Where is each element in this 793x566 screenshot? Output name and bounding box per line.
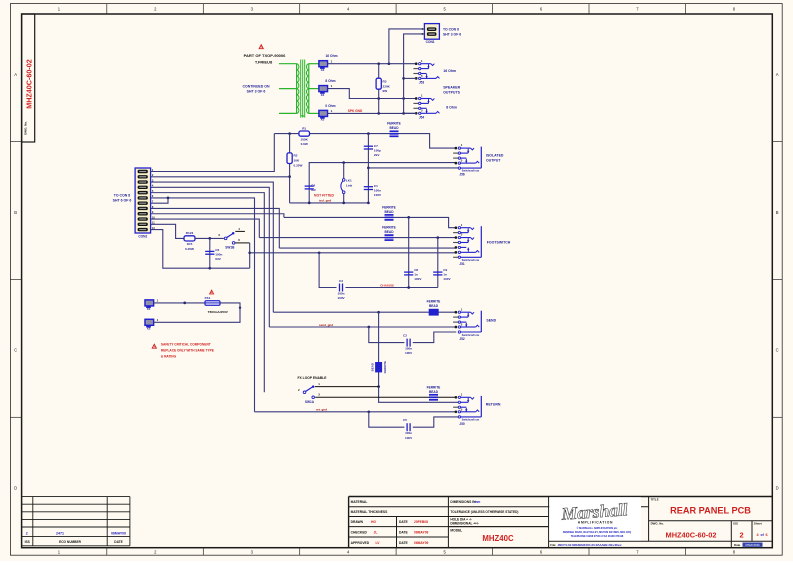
junction fuse right: [239, 307, 241, 309]
svg-text:SHT 3 OF 6: SHT 3 OF 6: [443, 32, 461, 36]
svg-text:SHT 3 OF 6: SHT 3 OF 6: [247, 89, 266, 93]
jack J51 footswitch: [453, 223, 481, 266]
svg-text:8 Ohm: 8 Ohm: [446, 106, 457, 110]
resistor R123: [184, 231, 224, 251]
svg-text:C: C: [14, 348, 17, 353]
svg-text:X3: X3: [321, 68, 325, 72]
svg-text:ISS: ISS: [733, 522, 738, 526]
title cell: [651, 497, 752, 515]
junction bottom rail at C4: [308, 202, 311, 205]
capacitor C8: [404, 217, 422, 287]
svg-text:6: 6: [766, 533, 768, 537]
svg-text:LK1: LK1: [346, 179, 352, 183]
svg-text:BEAD: BEAD: [371, 363, 375, 371]
capacitor C2 series to bushing: [369, 327, 456, 355]
svg-text:SW1A: SW1A: [305, 400, 315, 404]
wire SW1B pin6 down to ground: [249, 243, 251, 268]
wire CON2 pin12 to ground rail: [151, 230, 210, 269]
svg-text:06MAY09: 06MAY09: [111, 531, 126, 535]
svg-text:C2: C2: [403, 334, 407, 338]
svg-text:Sheet: Sheet: [754, 522, 762, 526]
svg-text:J51: J51: [459, 262, 465, 266]
svg-text:63V: 63V: [215, 257, 221, 261]
capacitor C9: [433, 238, 451, 288]
svg-text:X1: X1: [147, 307, 151, 311]
zone numbers top margin: [58, 7, 736, 12]
svg-text:100V: 100V: [405, 351, 413, 355]
wire CON2 pin10 to ferrite FB3: [151, 219, 260, 238]
svg-text:0.25W: 0.25W: [294, 164, 303, 168]
svg-text:2471: 2471: [56, 531, 64, 535]
svg-text:SEND: SEND: [486, 319, 496, 323]
svg-text:TO CON 6: TO CON 6: [443, 27, 459, 31]
svg-text:File:: File:: [550, 543, 556, 547]
svg-text:0 Ohm: 0 Ohm: [325, 104, 335, 108]
junction chassis rail at C8: [407, 286, 410, 289]
svg-text:TO CON 8: TO CON 8: [114, 194, 131, 198]
svg-text:OUTPUTS: OUTPUTS: [443, 91, 460, 95]
warning triangle above transformer: [259, 45, 263, 49]
svg-text:C: C: [776, 348, 779, 353]
svg-text:FERRITE: FERRITE: [387, 122, 401, 126]
svg-text:16 Ohm: 16 Ohm: [325, 54, 337, 58]
svg-text:DWG. No.: DWG. No.: [651, 522, 665, 526]
svg-text:BEAD: BEAD: [384, 210, 394, 214]
svg-text:CON2: CON2: [138, 235, 147, 239]
ferrite bead FB2: [382, 205, 396, 220]
svg-text:100n: 100n: [405, 347, 412, 351]
svg-text:100V: 100V: [374, 193, 382, 197]
terminal X1: [145, 299, 159, 312]
svg-text:MATERIAL THICKNESS: MATERIAL THICKNESS: [351, 510, 388, 514]
terminal X4 8 ohm tap: [319, 79, 336, 97]
svg-text:CHECKED: CHECKED: [351, 531, 368, 535]
zone letters right margin: [776, 72, 779, 491]
junction ret gnd at C5 branch: [367, 410, 370, 413]
junction CON1 pin2 at J53 sleeve: [402, 77, 405, 80]
svg-text:DWG. No.: DWG. No.: [24, 121, 28, 135]
svg-text:DRAWN: DRAWN: [351, 520, 364, 524]
svg-text:C7: C7: [374, 144, 378, 148]
wire top net drop to isolated jack tip: [425, 134, 456, 149]
capacitor C4 not fitted: [305, 183, 335, 202]
junction C7/C1 midpoint to bushing wire: [367, 167, 370, 170]
capacitor C6: [205, 238, 222, 268]
svg-text:MHZ40C: MHZ40C: [482, 534, 514, 543]
wire SPK GND net: [328, 109, 417, 113]
svg-text:10K: 10K: [294, 159, 300, 163]
wire SW1B pin6 to footswitch row6: [250, 252, 457, 254]
svg-text:FERRITE: FERRITE: [382, 205, 396, 209]
wire FB6 net to return row2: [379, 387, 459, 403]
zone numbers bottom margin: [58, 549, 736, 554]
svg-text:20FEB08: 20FEB08: [414, 520, 428, 524]
isolated output label: [486, 154, 504, 163]
wire isolated bushing net: [368, 167, 458, 169]
jack J54 8 ohm speaker output: [404, 94, 440, 120]
svg-text:PART OF TXOP-90006: PART OF TXOP-90006: [244, 53, 286, 58]
wire ground rail end: [210, 267, 250, 269]
svg-text:FOOTSWITCH: FOOTSWITCH: [487, 241, 511, 245]
junction R2 vertical at CON2 pin2 wire: [288, 175, 291, 178]
svg-text:X2: X2: [147, 327, 151, 331]
junction pin6/pin7: [167, 197, 170, 200]
ferrite bead FB3: [382, 226, 396, 241]
svg-text:100p: 100p: [374, 149, 381, 153]
date strip: [734, 543, 763, 548]
wire CON2 pin6 to ret gnd: [151, 198, 255, 412]
connector CON2: [135, 168, 155, 239]
svg-text:100V: 100V: [443, 277, 451, 281]
wire CON2 pin7 join pin6: [151, 198, 168, 203]
svg-text:send_gnd: send_gnd: [319, 323, 333, 327]
svg-text:DIMENSIONAL ++/-: DIMENSIONAL ++/-: [450, 522, 478, 526]
junction tip net at C8: [407, 216, 410, 219]
svg-text:MHZ40C-60-02: MHZ40C-60-02: [666, 530, 717, 539]
svg-text:C5: C5: [403, 418, 407, 422]
svg-text:SHT 6 OF 6: SHT 6 OF 6: [113, 199, 132, 203]
svg-text:1K5: 1K5: [187, 242, 193, 246]
svg-text:100n: 100n: [374, 189, 381, 193]
svg-text:HOLE DIA + -/-: HOLE DIA + -/-: [450, 517, 471, 521]
svg-text:9W: 9W: [383, 89, 388, 93]
wire CON2 pin5 to SW1A: [151, 193, 265, 393]
svg-text:MODEL: MODEL: [450, 529, 462, 533]
svg-text:R123: R123: [186, 231, 194, 235]
svg-text:REPLACE ONLY WITH SAME TYPE: REPLACE ONLY WITH SAME TYPE: [161, 349, 214, 353]
DWG number vertical box: [22, 14, 35, 142]
wire isolated top net: [274, 133, 425, 135]
svg-text:HG: HG: [371, 520, 376, 524]
svg-text:Date: Date: [734, 543, 741, 547]
capacitor C5 series to bushing: [369, 412, 458, 440]
svg-text:FERRITE: FERRITE: [427, 385, 441, 389]
junction send tip at FB6 vertical: [377, 311, 380, 314]
svg-text:T1: T1: [301, 114, 305, 118]
wire footswitch ring net FB3: [259, 237, 456, 239]
svg-text:B: B: [14, 210, 17, 215]
wire footswitch tip net FB2: [284, 217, 456, 227]
title block grid: [349, 497, 773, 548]
wire CON2 pin3 to send tip: [151, 182, 274, 312]
junction send gnd at C2 branch: [367, 326, 370, 329]
svg-text:REAR PANEL PCB: REAR PANEL PCB: [670, 506, 751, 516]
zone letters left margin: [14, 72, 17, 491]
wire CON2 pin11 to R123: [151, 224, 184, 238]
svg-text:X4: X4: [321, 93, 325, 97]
svg-text:MATERIAL: MATERIAL: [351, 500, 368, 504]
Marshall logo block: [549, 497, 641, 540]
svg-text:TELEPHONE 01908 375411 FAX 019: TELEPHONE 01908 375411 FAX 01908 376118: [571, 535, 624, 538]
svg-text:isol_gnd: isol_gnd: [319, 198, 332, 202]
wire send gnd net: [269, 323, 456, 327]
svg-text:MHZ40C-60-02: MHZ40C-60-02: [25, 59, 34, 109]
file strip: [550, 543, 622, 547]
svg-text:100V: 100V: [337, 296, 345, 300]
text to CON6: [443, 27, 461, 36]
svg-text:OUTPUT: OUTPUT: [486, 159, 501, 163]
svg-text:ret_gnd: ret_gnd: [316, 408, 327, 412]
junction 16 ohm at R3: [377, 62, 380, 65]
junction 8 ohm at R3: [377, 97, 380, 100]
wire CON2 pin4 to send gnd: [151, 187, 270, 327]
wire CON1 pin2 vertical: [404, 34, 425, 114]
wire CON2 pin8 to footswitch: [151, 208, 280, 248]
svg-text:DATE: DATE: [399, 531, 409, 535]
svg-text:RETURN: RETURN: [486, 402, 501, 406]
ferrite bead FB1: [387, 122, 401, 137]
safety warning triangle: [152, 344, 156, 348]
connector CON1: [422, 24, 440, 44]
wire fuse to X2: [154, 303, 240, 322]
terminal X3 16 ohm tap: [319, 54, 338, 72]
svg-text:BEAD: BEAD: [389, 126, 399, 130]
junction R123 at C6: [208, 237, 211, 240]
svg-text:R2: R2: [294, 154, 298, 158]
junction 16 ohm at CON1 pin1 drop: [388, 62, 391, 65]
ECO revision table: [22, 497, 130, 546]
link LK1: [341, 163, 353, 203]
svg-text:ISS: ISS: [25, 540, 30, 544]
svg-text:C6: C6: [215, 248, 219, 252]
junction SPK GND at CON1 pin2 drop: [402, 112, 405, 115]
svg-text:100V: 100V: [414, 277, 422, 281]
svg-text:A: A: [14, 72, 17, 77]
resistor R1: [299, 127, 310, 146]
svg-text:DIMENSIONS IN: DIMENSIONS IN: [450, 500, 476, 504]
svg-text:DATE: DATE: [114, 540, 122, 544]
wire SW1A pin3 to return tip: [315, 396, 456, 398]
svg-text:CHASSIS: CHASSIS: [380, 283, 394, 287]
capacitor C3 series: [337, 279, 345, 300]
svg-text:CON1: CON1: [426, 40, 435, 44]
svg-text:SW1B: SW1B: [225, 245, 235, 249]
svg-text:BEAD: BEAD: [384, 230, 394, 234]
junction SW1B pin6 branch: [248, 251, 251, 254]
svg-text:T800mA/250V: T800mA/250V: [208, 310, 229, 314]
svg-text:FERRITE: FERRITE: [383, 361, 387, 373]
switch SW1A: [298, 382, 379, 404]
transformer T1: [279, 60, 319, 119]
svg-text:C1: C1: [374, 184, 378, 188]
svg-text:R1: R1: [302, 127, 306, 131]
svg-text:D: D: [14, 486, 17, 491]
junction X1 wire: [183, 302, 186, 305]
title block dimensions column texts: [450, 500, 518, 543]
svg-text:© MARSHALL AMPLIFICATION plc: © MARSHALL AMPLIFICATION plc: [577, 527, 618, 530]
svg-text:8 Ohm: 8 Ohm: [325, 79, 335, 83]
resistor R3: [376, 64, 391, 114]
svg-text:& RATING: & RATING: [161, 355, 177, 359]
ferrite bead FB6 vertical: [371, 312, 387, 386]
wire CON2 pin1 to R1: [151, 134, 275, 172]
svg-text:T.FRIEU8: T.FRIEU8: [255, 59, 273, 64]
wire 8 ohm net: [328, 89, 417, 99]
svg-text:06MAY09: 06MAY09: [414, 531, 429, 535]
svg-text:100n: 100n: [215, 253, 222, 257]
svg-text:100n: 100n: [405, 431, 412, 435]
svg-text:FS1: FS1: [205, 296, 211, 300]
warning triangle at FS1: [210, 290, 214, 294]
svg-text:C8: C8: [414, 268, 418, 272]
svg-text:Link: Link: [346, 183, 353, 187]
svg-text:2kV: 2kV: [374, 153, 380, 157]
terminal X2: [145, 318, 159, 331]
wire CON1 pin1 to 16 ohm: [389, 29, 425, 64]
capacitor C1: [364, 184, 382, 197]
junction FB6 net at SW1A pin1: [377, 385, 380, 388]
svg-text:06MAY09: 06MAY09: [414, 541, 429, 545]
svg-text:J50: J50: [459, 422, 465, 426]
continued on text: [242, 85, 270, 94]
junction bottom rail at LK1: [342, 202, 345, 205]
svg-text:DENBIGH ROAD, BLETCHLEY, MILTO: DENBIGH ROAD, BLETCHLEY, MILTON KEYNES, …: [563, 531, 631, 534]
svg-text:TITLE: TITLE: [651, 497, 659, 501]
svg-text:X5: X5: [321, 118, 325, 122]
svg-text:SPEAKER: SPEAKER: [443, 86, 460, 90]
svg-text:FX LOOP ENABLE: FX LOOP ENABLE: [298, 376, 328, 380]
svg-text:C9: C9: [443, 268, 447, 272]
svg-text:2: 2: [26, 531, 28, 535]
svg-text:0.6W: 0.6W: [301, 142, 308, 146]
terminal X5 0 ohm tap: [319, 104, 336, 122]
ferrite bead FB5: [427, 385, 441, 400]
jack J50 return: [453, 392, 481, 426]
safety critical text: [161, 343, 214, 359]
wire isolated ring net: [309, 163, 456, 203]
wire chassis rail: [319, 253, 438, 288]
svg-text:JMC\TLCE MRH\MHZ40C-60-02\AABB: JMC\TLCE MRH\MHZ40C-60-02\AABB 2\Es4Dsw: [558, 543, 623, 547]
svg-text:J54: J54: [419, 115, 425, 119]
wire CON2 pin2 to R2 top: [151, 176, 290, 178]
svg-text:APPROVED: APPROVED: [351, 541, 370, 545]
svg-text:07MAY2009: 07MAY2009: [745, 543, 760, 547]
svg-text:CONTINUED ON: CONTINUED ON: [242, 85, 270, 89]
svg-text:J56: J56: [459, 173, 465, 177]
resistor R2: [287, 134, 303, 203]
svg-text:1n: 1n: [414, 273, 418, 277]
svg-text:AMPLIFICATION: AMPLIFICATION: [578, 521, 613, 525]
junction ground rail at C6: [208, 267, 211, 270]
wire 16 ohm net: [328, 63, 417, 65]
svg-text:SAFETY CRITICAL COMPONENT: SAFETY CRITICAL COMPONENT: [161, 343, 211, 347]
svg-text:FERRITE: FERRITE: [382, 226, 396, 230]
svg-text:2: 2: [739, 531, 743, 540]
svg-text:NOT FITTED: NOT FITTED: [314, 194, 335, 198]
svg-text:A: A: [776, 72, 779, 77]
svg-text:C3: C3: [339, 279, 343, 283]
switch SW1B: [218, 227, 250, 249]
svg-text:0.25W: 0.25W: [185, 247, 194, 251]
svg-text:BEAD: BEAD: [429, 390, 439, 394]
svg-text:B: B: [776, 210, 779, 215]
issue cell: [733, 522, 743, 540]
svg-text:ISOLATED: ISOLATED: [486, 154, 504, 158]
wire CON2 pin9 to ferrite FB2: [151, 214, 284, 218]
speaker output labels: [443, 69, 460, 109]
jack J56 isolated output: [453, 143, 481, 176]
svg-text:220K: 220K: [383, 84, 391, 88]
svg-text:100K: 100K: [300, 137, 308, 141]
svg-text:ECO NUMBER: ECO NUMBER: [59, 540, 81, 544]
svg-text:100n: 100n: [337, 292, 344, 296]
fuse FS1: [154, 296, 229, 314]
drawing number cell: [651, 522, 717, 540]
svg-text:DATE: DATE: [399, 541, 409, 545]
svg-text:SPK GND: SPK GND: [348, 109, 363, 113]
svg-text:TOLERANCE (UNLESS OTHERWISE ST: TOLERANCE (UNLESS OTHERWISE STATED): [450, 510, 518, 514]
svg-text:DATE: DATE: [399, 520, 409, 524]
svg-text:JL: JL: [374, 531, 378, 535]
svg-text:R3: R3: [383, 80, 387, 84]
title block left column texts: [351, 500, 429, 545]
junction ring net at C9: [436, 236, 439, 239]
wire ret gnd net: [255, 408, 457, 412]
junction row6 net at chassis branch: [318, 251, 321, 254]
svg-text:D: D: [776, 486, 779, 491]
svg-text:100V: 100V: [405, 436, 413, 440]
wire isolated bottom rail: [290, 202, 369, 204]
junction SPK GND at R3: [377, 112, 380, 115]
svg-text:J52: J52: [459, 337, 465, 341]
svg-text:C4: C4: [311, 183, 315, 187]
svg-text:16 Ohm: 16 Ohm: [443, 69, 456, 73]
wire footswitch row5 net: [279, 247, 456, 249]
svg-text:J53: J53: [419, 81, 425, 85]
transformer part text: [244, 53, 286, 64]
sheet cell: [754, 522, 768, 538]
svg-text:1n: 1n: [443, 273, 447, 277]
svg-text:mm: mm: [475, 500, 481, 504]
junction 8 ohm at CON1 pin2 drop: [402, 97, 405, 100]
wire send tip net: [273, 311, 456, 313]
text to CON8: [113, 194, 132, 203]
capacitor C7: [364, 134, 381, 203]
svg-text:FERRITE: FERRITE: [427, 300, 441, 304]
jack J52 send: [453, 307, 481, 341]
junction R1 left at R2 vertical: [288, 132, 291, 135]
junction top net at C7: [367, 132, 370, 135]
junction ring net at LK1: [342, 161, 345, 164]
junction bottom rail at C1: [367, 202, 370, 205]
svg-text:N.F: N.F: [311, 188, 316, 192]
svg-text:BEAD: BEAD: [429, 304, 439, 308]
jack J53 16 ohm speaker output: [404, 59, 440, 85]
ferrite bead FB4: [427, 300, 441, 316]
